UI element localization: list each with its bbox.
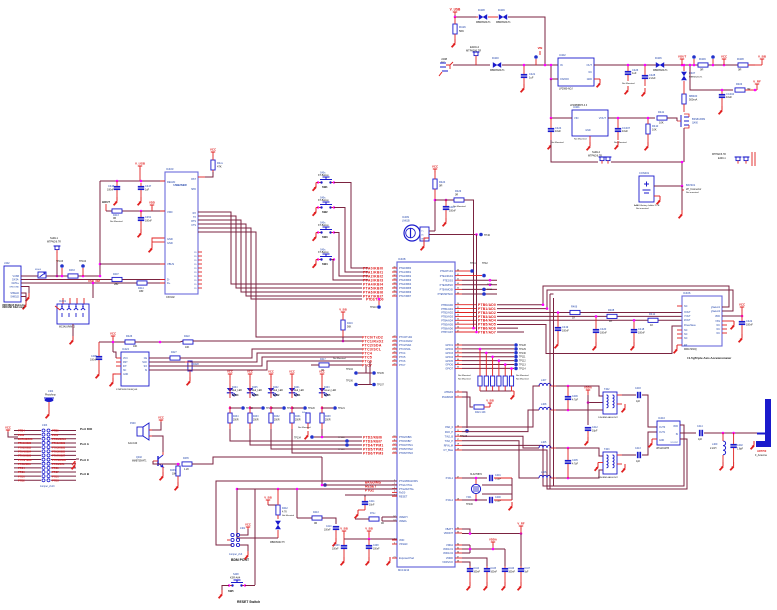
capacitor C401 6.8pF [489,474,512,481]
wire vbus riser short [99,263,102,278]
not mounted r417 [333,357,346,360]
resistor R410 10K vertical [646,117,659,142]
capacitor C406 4.7pF [565,386,579,410]
mcu pin PAO_P [445,430,462,434]
wire vdda rows [462,545,505,553]
test point gpio 7 [514,367,526,371]
svg-text:LED3: LED3 [252,394,259,397]
svg-text:TP138: TP138 [338,437,345,439]
svg-text:PTC7: PTC7 [399,364,406,367]
mcu pin PTE2/SS [443,279,462,283]
capacitor C412 10pF [585,426,599,437]
svg-text:PTG0/BKGD/MS: PTG0/BKGD/MS [399,480,418,483]
svg-text:10uF: 10uF [555,129,561,133]
svg-text:100nF: 100nF [600,332,607,335]
wire gpio row 7 [462,367,514,369]
wire L406 out [556,470,603,479]
net label VCC rail [721,54,728,66]
resistor R403b 0R [61,269,85,278]
svg-text:10K: 10K [172,474,177,476]
svg-text:PTA7/KBI7: PTA7/KBI7 [52,454,66,458]
capacitor C413b 100pF [635,447,641,463]
junction led LED2 [270,407,273,410]
port row 5 left [14,445,41,449]
svg-text:PTD2: PTD2 [18,479,25,483]
resistor R444 0R [369,513,384,525]
switch SW3 [317,222,335,240]
svg-text:1K: 1K [572,316,575,320]
wire r444 [355,518,369,520]
svg-text:R71x: R71x [370,513,376,515]
svg-text:P401: P401 [52,433,59,437]
svg-text:SW5: SW5 [228,589,234,593]
svg-text:R407: R407 [113,273,119,276]
svg-text:VCC: VCC [289,369,295,373]
mcu pin RESET [392,495,408,499]
svg-text:PTC7: PTC7 [362,363,372,367]
resistor R441 10K [657,110,667,125]
ground under R410 [645,142,648,150]
net label PTC4 [362,351,372,355]
wire vbatt [462,529,522,535]
svg-text:PTC1/RxD2: PTC1/RxD2 [52,458,67,462]
wire SW2 to port [334,208,368,273]
mcu pin PTB4/AD4 [441,319,477,323]
net label PTA2/KBI2 [363,274,383,278]
net label PTA6/KBI6 [363,290,383,294]
resistor R422 10K [183,335,193,349]
svg-text:UPG2012TB: UPG2012TB [656,448,669,450]
wire ptb7 stub [475,331,524,334]
svg-text:1uF: 1uF [632,71,637,75]
led D404 LED4 [227,384,243,398]
usb ic right lower pins [194,252,202,290]
svg-text:NC: NC [684,337,688,340]
junction rail VIN [544,64,547,67]
wire lm61 out to tp [429,233,478,236]
svg-text:PTB5/AD5: PTB5/AD5 [441,323,453,326]
net label VOUT [678,54,687,66]
test point TP103 [56,260,64,276]
svg-text:200R: 200R [274,420,280,422]
svg-text:USB2SER: USB2SER [173,183,186,187]
svg-text:C418: C418 [638,327,645,331]
accel nc stubs [677,306,682,338]
svg-text:Port DIO: Port DIO [80,427,93,431]
svg-text:18R: 18R [139,290,144,293]
wire D400 to U402 [502,64,558,66]
mcu pin VREFH [392,515,408,519]
resistor array common [480,390,514,392]
svg-text:1K: 1K [650,323,653,327]
wire ptb6 stub [472,327,518,330]
svg-text:SO: SO [144,366,148,368]
vcc above R415 [210,147,217,155]
usb ic ground pins [149,238,165,252]
test point TP402 [711,55,715,66]
ground C409 [341,557,344,565]
inductor L408 [539,403,556,410]
wire D408-D409 [488,16,498,18]
svg-text:D408: D408 [478,8,485,12]
wire bundle down to bdm [321,457,323,485]
svg-text:Red_LED: Red_LED [273,390,283,392]
mcu pin PTA3/KBI3 [392,278,412,282]
net label PTC5 [362,355,372,359]
svg-text:VDD: VDD [399,539,404,542]
svg-text:TP114: TP114 [519,368,526,370]
wire gpio row 4 [462,356,514,358]
svg-text:D404: D404 [232,387,238,389]
svg-text:SW2: SW2 [322,210,328,214]
mcu pin PTC2/SDA [392,343,412,347]
svg-text:ATBIAS: ATBIAS [444,391,453,394]
rf switch gnd [649,439,657,447]
varistor MG04 [35,269,46,278]
svg-text:P0: P0 [194,268,196,270]
svg-text:KAL/C40: KAL/C40 [128,442,138,445]
diode D408 MBR0520LT1 [476,8,491,24]
wire bkgd loop [216,481,397,545]
svg-text:PTC5: PTC5 [399,356,406,359]
bdm header J401 [229,527,250,562]
mcu pin PTE0/TxD1 [440,269,462,273]
net label PTB6/AD6 [478,327,496,331]
svg-text:V_BB: V_BB [486,398,493,402]
svg-text:E400-1: E400-1 [718,157,726,160]
svg-text:gSelect1: gSelect1 [711,306,721,309]
svg-text:PTD5/TPM2: PTD5/TPM2 [399,448,413,451]
svg-text:C451: C451 [145,215,152,219]
mcu pin PTB3/AD3 [441,315,477,319]
svg-text:SI: SI [145,370,148,372]
net label PTD1 txd [366,297,384,301]
rf loop outer [550,294,687,489]
mcu pin PTE5/SPSCK [438,292,462,296]
wire SW3 to port [334,233,368,277]
svg-text:1pF: 1pF [698,438,703,441]
svg-text:PTB1/AD1: PTB1/AD1 [441,308,453,311]
capacitor C446 100nF [502,566,516,582]
svg-text:C446: C446 [108,184,115,188]
svg-text:1uF: 1uF [529,76,534,80]
svg-text:V_BB: V_BB [340,526,347,530]
svg-text:Port A: Port A [80,442,90,446]
led D402 LED2 [268,384,284,398]
resistor R417 0R [311,358,362,372]
accel nc right stubs [722,325,727,333]
wire gsel row2 [497,308,547,310]
svg-text:RST: RST [123,362,128,364]
svg-text:PTA3/KBI3: PTA3/KBI3 [399,279,412,282]
tp labels top [470,262,488,265]
wire xtal1 [462,474,487,478]
wire ce row [149,357,170,359]
usb ic right rst pullup [198,172,213,177]
capacitor C403 100pF [635,387,641,403]
usb ic tx/rx wires to bundle [198,212,362,296]
svg-text:MTPAD/6.7R: MTPAD/6.7R [712,153,726,156]
svg-text:PTE4/MOSI: PTE4/MOSI [440,289,454,292]
mcu pin PTA4/KBI4 [392,282,412,286]
svg-text:HOUT: HOUT [102,200,110,204]
svg-text:MB400: MB400 [689,94,698,98]
junction V_USB/R416 [454,16,457,19]
svg-text:R423: R423 [455,189,462,193]
svg-text:ZOUT: ZOUT [684,319,691,322]
svg-text:Q402: Q402 [136,456,143,459]
svg-text:USB_DM: USB_DM [88,279,100,283]
svg-text:Not Mounted: Not Mounted [614,141,627,144]
pullup resistor array 3 [491,356,495,392]
crystal Y401 [466,477,481,502]
svg-text:1uF: 1uF [145,189,150,192]
svg-text:100nF: 100nF [107,189,114,192]
ground balun1 [622,404,625,412]
mcu pin PTE1/RxD1 [440,274,462,278]
mcu pin VDDLO2 [443,551,462,555]
resistor R421 10K [474,405,486,414]
mcu pin VDDLO1 [443,547,462,551]
svg-text:KT-Button: KT-Button [318,174,329,177]
resistor R409 0R [698,57,708,72]
svg-text:R436: R436 [170,470,176,472]
svg-text:VIN: VIN [538,46,543,50]
svg-text:BAT401: BAT401 [686,183,696,187]
svg-text:MBR0520LT1: MBR0520LT1 [490,69,505,72]
svg-text:Not Mounted: Not Mounted [574,138,587,141]
svg-text:Not mounted: Not mounted [636,207,649,210]
net label V_RF [745,79,761,91]
svg-text:LP2980-ADJ: LP2980-ADJ [559,88,573,91]
svg-text:IN: IN [560,63,563,67]
ground under C404 [719,106,722,114]
mcu pin PTC7 [392,363,406,367]
resistor R416 56K [453,17,466,39]
resistor R423 0R not mounted [453,189,466,208]
capacitor C408 100nF [366,539,380,557]
mcu pin PTB7/AD7 [441,330,477,334]
net label PTA5/KBI5 [363,286,383,290]
net label PTC6 [362,359,372,363]
ground balun2 [622,464,625,472]
svg-text:Exposed Pad: Exposed Pad [399,557,414,560]
svg-text:VCC: VCC [158,415,164,419]
mcu IC408 MC13213 box [397,257,455,572]
svg-text:Q400: Q400 [692,122,699,125]
svg-text:C408: C408 [373,545,379,547]
svg-text:100nF: 100nF [90,359,97,362]
svg-text:PowerSave: PowerSave [684,324,696,327]
svg-text:T403: T403 [604,448,610,451]
svg-text:PTB4/AD4: PTB4/AD4 [441,320,453,323]
tp dots spi [482,279,491,296]
wire base resistor [153,461,180,464]
svg-text:VREFH: VREFH [399,516,408,519]
port row 6 right [51,449,76,453]
svg-text:D403: D403 [324,387,330,389]
ground C445 [484,582,487,590]
svg-text:IC403: IC403 [166,167,174,171]
svg-text:GND: GND [659,440,664,442]
wire R441 to Q400 gate [667,118,677,121]
svg-text:RST: RST [191,178,196,181]
mcu pin VREFL [392,519,408,523]
switch SW1 [317,172,335,190]
ground C410b [333,538,336,546]
bdm wires [227,540,248,551]
svg-text:1.8pF: 1.8pF [737,448,744,451]
svg-text:PTA5/KBI5: PTA5/KBI5 [52,449,66,453]
svg-text:CTS: CTS [191,224,196,227]
net label PTA0/KBI0 [363,266,383,270]
wire atbias tp [462,392,467,428]
svg-text:PTC0/TxD2: PTC0/TxD2 [399,336,413,339]
port row 3 left [14,437,41,441]
wire zout row [497,319,682,321]
wire gpio row 1 [462,344,514,346]
svg-text:C420: C420 [600,327,607,331]
gselect loop wires [542,286,733,311]
svg-text:Not mounted: Not mounted [686,191,699,194]
vcc led LED2 [268,369,274,384]
temp sensor IC409 LM61 [402,215,429,241]
inductor L405 [539,441,556,448]
capacitor C413 100nF [443,200,457,218]
wire gpio row 2 [462,348,514,350]
svg-text:MC13213: MC13213 [398,568,410,572]
wire to antenna [704,432,758,435]
capacitor C400 6.8pF [489,496,512,503]
svg-text:V_RF: V_RF [517,521,524,525]
net label VDDA [489,537,497,550]
svg-text:MBR0520LT1: MBR0520LT1 [476,21,491,24]
svg-text:200R: 200R [295,420,301,422]
capacitor C420 100nF [593,315,608,342]
svg-text:Jumper_2x3: Jumper_2x3 [229,553,243,556]
svg-text:VSS: VSS [715,320,720,323]
svg-text:TP107: TP107 [377,385,384,387]
svg-text:Not Mounted: Not Mounted [516,378,529,381]
vcc port header [5,425,18,437]
capacitor C447 1uF [138,183,152,197]
svg-text:TP104: TP104 [79,260,87,263]
wire R423 to vertical [464,200,474,328]
svg-text:R403: R403 [736,82,743,86]
ground antenna [751,441,754,449]
capacitor C424 10uF not mounted [548,118,565,144]
svg-text:TP45: TP45 [487,289,493,291]
port row 11 right [51,470,76,474]
svg-text:LED1: LED1 [294,394,301,397]
ground C447 [518,582,521,590]
wire sck row [149,361,185,363]
svg-text:GND: GND [167,237,173,241]
wire tinj_b [462,436,539,448]
port row 11 left [14,470,41,474]
svg-text:PTB7/AD7: PTB7/AD7 [478,330,496,334]
wire L405 out [556,447,603,456]
wire SW1 to port [334,183,368,269]
svg-text:Not Mounted: Not Mounted [298,426,311,429]
net label V_USB usb [135,161,146,181]
test point gpio 1 [514,343,526,347]
svg-text:PTA0/KBI0: PTA0/KBI0 [399,267,412,270]
svg-text:D401: D401 [294,387,300,389]
svg-text:R438: R438 [325,416,331,418]
inductor L409 2.2nH [710,433,726,462]
ground C412 [585,437,588,445]
resistor R443 0R [312,511,322,525]
svg-text:PTG2/EXTAL: PTG2/EXTAL [399,488,415,491]
svg-text:LED2: LED2 [273,394,280,397]
svg-text:D+: D+ [167,281,171,285]
svg-text:V_BB: V_BB [365,526,372,530]
usb connector J402 [2,261,26,307]
rf switch IC410 [656,416,680,450]
svg-text:KSR-AA4: KSR-AA4 [230,577,241,580]
svg-text:C444: C444 [474,568,480,570]
svg-text:TP120: TP120 [308,408,315,410]
svg-text:VDD: VDD [167,210,173,214]
switch SW4 [317,249,335,267]
svg-text:TP42: TP42 [482,262,488,265]
net label V_BB pgm [484,398,494,407]
mcu pin GPIO2 [445,347,462,351]
mcu pin PTD5/TPM2 [392,447,413,451]
svg-text:XOUT: XOUT [684,311,691,314]
svg-text:TINJ_P: TINJ_P [445,440,454,443]
net label PTB3/AD3 [478,315,496,319]
sw5 left ground [222,586,229,591]
svg-text:2450BM14A0002HT: 2450BM14A0002HT [598,476,618,479]
balun2 right pins [617,455,636,464]
vcc led LED3 [247,369,253,384]
mcu pin PTG0/BKGD/MS [392,479,418,483]
wire pads to battery rail [611,161,683,186]
svg-text:PTE5/SPSCK: PTE5/SPSCK [438,293,454,296]
mcu pin PGMRGB [442,395,462,399]
svg-text:TP128: TP128 [519,345,526,347]
resistor R403 0R [735,82,750,92]
rf switch out wire [680,432,696,434]
rail down from VIN [550,79,552,118]
regulator U401 LP2985 not mounted [570,105,608,141]
transistor Q402 NPN [132,452,163,472]
test points TP104 TP105 [346,365,384,375]
net label V_RF vbatt [517,521,524,533]
svg-text:PTD5: PTD5 [52,429,59,433]
usb ic extra wires [198,228,362,337]
capacitor C404 10uF [719,89,735,106]
mcu pin PTA7/KBI7 [392,294,412,298]
net label VDD usb [149,200,155,211]
speaker P200 [128,422,152,445]
svg-text:R408: R408 [608,308,615,312]
svg-text:100nF: 100nF [562,330,569,333]
test point gpio 5 [514,359,526,363]
wire rbb down [342,337,345,342]
net label PTB2/AD2 [478,311,496,315]
mcu pin RxD0 [392,491,406,495]
svg-text:VCC: VCC [245,522,251,526]
port group labels [80,427,93,476]
mcu pin VDD [392,538,404,542]
mcu pin PTB0/AD0 [441,303,477,307]
wire si to block [149,361,362,370]
svg-text:4.7pF: 4.7pF [572,463,579,466]
wire ce to block [180,349,362,358]
